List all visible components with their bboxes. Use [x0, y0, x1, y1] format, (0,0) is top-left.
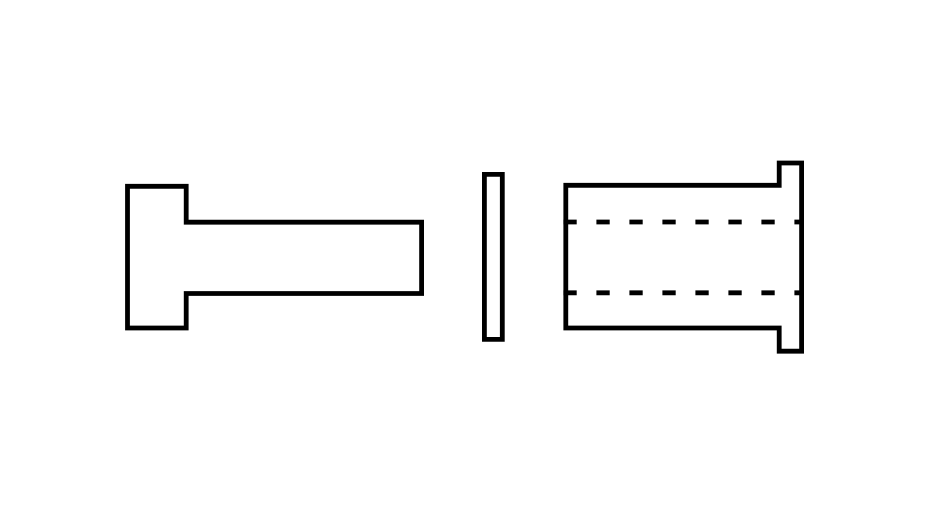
bolt (T-shaped fastener, side view) [128, 186, 422, 328]
hidden line lower (dashed) [563, 290, 804, 295]
flanged bushing body [566, 163, 802, 351]
hidden line upper (dashed) [563, 220, 804, 225]
washer (thin plate) [484, 174, 502, 339]
